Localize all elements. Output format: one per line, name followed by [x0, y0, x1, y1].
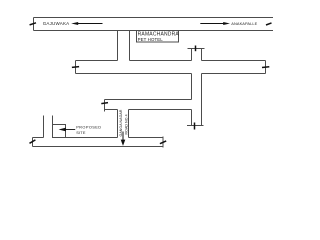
svg-text:ANAKAPALLE: ANAKAPALLE [231, 21, 257, 26]
cross road 2 top end tick [195, 46, 197, 52]
cross road 2 bottom end cap [187, 125, 204, 127]
cross road 1 left line [117, 31, 119, 61]
svg-text:PROPOSED: PROPOSED [76, 125, 101, 130]
cross road 2 left line lower segment [191, 110, 193, 126]
proposed site arrow [59, 128, 76, 132]
cross road 2 right line lower segment [201, 74, 203, 126]
cross road 1 right line [129, 31, 131, 61]
landmark box [137, 31, 179, 43]
bottom road right end tick [160, 141, 166, 144]
ganga nagar road down arrow [121, 132, 126, 146]
middle road left end cap [75, 61, 77, 74]
bottom road left end cap [32, 138, 34, 147]
gajuwaka direction arrow [71, 22, 102, 25]
middle road top line segment a [76, 60, 118, 62]
lane left line [43, 116, 45, 138]
side road left end tick [101, 103, 108, 104]
main road left end tick [30, 23, 36, 25]
main road left end cap [33, 18, 35, 31]
svg-text:ROAD NO.4: ROAD NO.4 [124, 114, 128, 134]
bottom road top line segment b [53, 137, 118, 139]
bottom road left end tick [30, 140, 36, 143]
bottom road top line segment c [129, 137, 164, 139]
middle road top line segment b [130, 60, 192, 62]
cross road 2 bottom end tick [194, 123, 196, 130]
cross road 2 right line upper segment [201, 49, 203, 61]
bottom road bottom line [33, 146, 164, 148]
side road left end cap [104, 100, 106, 112]
middle road top line segment c [202, 60, 266, 62]
lane right line [52, 116, 54, 138]
cross road 2 top end cap [188, 48, 205, 50]
cross road 2 left line middle segment [191, 74, 193, 100]
svg-text:GAJUWAKA: GAJUWAKA [43, 21, 70, 26]
middle road left end tick [72, 66, 79, 69]
proposed site plot rectangle [53, 125, 66, 138]
middle road right end tick [262, 66, 269, 69]
anakapalle direction arrow [200, 22, 230, 25]
middle road bottom line segment b [202, 73, 266, 75]
svg-text:GANGA NAGAR: GANGA NAGAR [119, 109, 123, 136]
svg-text:PET HOTEL: PET HOTEL [138, 37, 164, 42]
ganga nagar road right line [128, 110, 130, 138]
ganga nagar road left line [117, 110, 119, 138]
main road bottom line [34, 30, 274, 32]
bottom road top line segment a [33, 137, 44, 139]
bottom road right end cap [162, 137, 164, 148]
main road right end tick [266, 23, 272, 25]
svg-text:SITE: SITE [76, 130, 86, 135]
middle road right end cap [265, 61, 267, 74]
middle road bottom line segment a [76, 73, 192, 75]
main road top line [34, 17, 274, 19]
side road bottom line segment a [105, 109, 118, 111]
side road bottom line segment b [129, 109, 192, 111]
side road top line [105, 99, 192, 101]
cross road 2 left line upper segment [191, 49, 193, 61]
